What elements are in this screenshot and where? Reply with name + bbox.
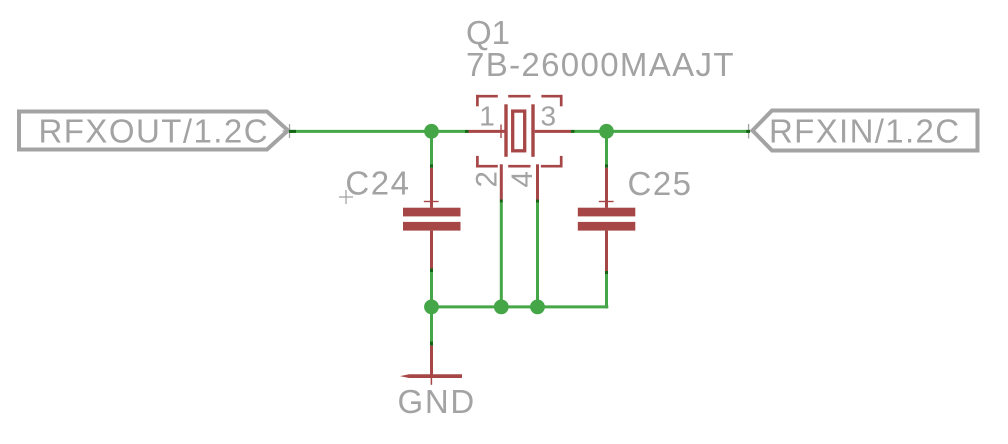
C24 pin end marker bottom: [430, 269, 433, 273]
pin 3 end marker: [571, 130, 575, 133]
C24 pin end marker top: [430, 164, 433, 168]
C25 pin end marker bottom: [605, 271, 608, 274]
origin cross C24 text: [339, 190, 353, 204]
pin 4 end marker: [536, 200, 539, 203]
pin cross at RFXOUT tip: [283, 124, 297, 138]
ground bar: [400, 374, 462, 378]
crystal pin 4 lead: [536, 164, 539, 199]
pin cross at RFXIN tip: [743, 124, 757, 139]
svg-text:RFXIN/1.2C: RFXIN/1.2C: [769, 113, 960, 150]
wire pin4 down: [536, 203, 539, 307]
crystal Q1 body: [513, 111, 525, 151]
wire C25 to bottom: [605, 274, 608, 308]
capacitor C25 plates: [578, 208, 636, 217]
C25 origin cross: [599, 201, 614, 203]
svg-text:C25: C25: [628, 165, 693, 202]
junction dot bottom pin4: [530, 300, 545, 315]
pin 1 end marker: [465, 130, 469, 133]
svg-text:RFXOUT/1.2C: RFXOUT/1.2C: [39, 113, 269, 150]
crystal Q1 pin 1 lead: [469, 130, 507, 133]
C25 pin end marker top: [605, 164, 608, 168]
svg-text:GND: GND: [398, 383, 476, 420]
wire C24 to bottom: [430, 272, 433, 307]
wire end marker at flag tip: [289, 130, 296, 133]
wire RFXIN side: [575, 130, 751, 133]
ground origin cross: [430, 372, 432, 385]
wire junction to C25: [605, 131, 608, 164]
capacitor C24 bottom lead: [430, 231, 433, 269]
net flag RFXIN/1.2C: [753, 111, 978, 151]
svg-text:4: 4: [506, 171, 539, 187]
junction dot bottom left: [424, 300, 439, 315]
wire junction to C24: [430, 131, 433, 164]
wire end marker at RFXIN tip: [746, 130, 750, 133]
GND lead: [430, 346, 433, 376]
pin 2 end marker: [500, 200, 503, 203]
capacitor C24 top lead: [430, 168, 433, 208]
junction dot right: [599, 124, 614, 139]
junction dot left: [424, 124, 439, 139]
bottom wire: [432, 305, 609, 308]
svg-text:2: 2: [471, 171, 504, 187]
crystal Q1 left plate: [504, 104, 507, 157]
crystal Q1 dashed outline: [476, 95, 563, 168]
junction dot bottom pin2: [494, 300, 509, 315]
svg-text:3: 3: [541, 101, 557, 132]
crystal pin 2 lead: [500, 164, 503, 199]
svg-text:1: 1: [479, 101, 495, 132]
wire RFXOUT to crystal: [289, 130, 466, 133]
crystal Q1 origin cross: [500, 125, 502, 139]
capacitor C25 top lead: [605, 168, 608, 208]
wire pin2 down: [500, 203, 503, 307]
svg-text:C24: C24: [345, 165, 410, 202]
net flag RFXOUT/1.2C: [19, 112, 288, 150]
crystal Q1 pin 3 lead: [535, 130, 571, 133]
GND pin end marker: [430, 341, 433, 345]
capacitor C25 bottom lead: [605, 231, 608, 271]
svg-text:7B-26000MAAJT: 7B-26000MAAJT: [466, 46, 735, 83]
capacitor C24 plates: [403, 208, 461, 217]
crystal Q1 right plate: [531, 104, 534, 157]
wire to GND: [430, 307, 433, 341]
C24 origin cross: [424, 201, 439, 203]
